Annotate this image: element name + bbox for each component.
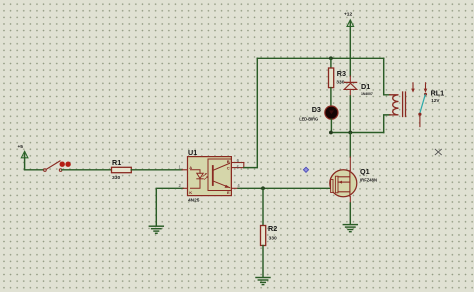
pivot dot [424,93,427,96]
junction D1 bottom [348,131,352,135]
U1 pin 4 stub [232,187,239,189]
wire R2 to ground [262,246,264,278]
svg-text:D1: D1 [361,82,370,91]
U1 internal LED [191,170,204,189]
junction R3 top [329,56,333,60]
bottom bus wire [331,132,384,134]
wire U1 pins to +12 rail riser [244,58,257,167]
U1 pin letters [189,159,230,195]
internal vertical [349,171,351,197]
MOSFET Q1 [330,167,377,197]
wire +5 to switch [25,169,44,171]
ground (Q1 source) [343,225,357,232]
svg-text:330: 330 [112,175,120,181]
power terminal +12 [344,12,354,59]
power terminal +5 [18,144,28,170]
wire U1 pin 2 to ground [156,188,183,225]
drain segment [338,176,350,178]
wire top bus to relay coil [384,58,390,95]
svg-text:A: A [189,165,192,170]
wire D3 to bottom bus [330,119,332,132]
wire +12 rail through D1 branch [349,58,351,76]
gate bar [331,180,333,193]
lever [420,95,425,113]
top bus wire [257,57,383,59]
channel bar [335,176,338,193]
wire R1 to U1 pin 1 [131,169,182,171]
ground (R2) [256,278,270,285]
LED D3 [299,105,338,121]
source segment [338,191,350,193]
resistor R2 [261,224,278,246]
Q1 source pin stub [349,197,351,204]
U1 light arrows [203,173,209,179]
contact pin right [425,83,427,89]
svg-text:2: 2 [179,183,182,188]
svg-text:R1: R1 [112,158,121,167]
svg-text:D3: D3 [312,105,321,114]
wire U1 pin4 to Q1 gate [238,187,331,189]
svg-text:R2: R2 [268,224,277,233]
svg-text:IRFZ48N: IRFZ48N [360,178,377,183]
U1 internal phototransistor [213,163,230,188]
wire junction to R2 [262,188,264,225]
svg-text:330: 330 [336,80,344,86]
contact pin left [412,83,414,89]
junction node (gate/R2) [261,186,265,190]
svg-text:C: C [227,165,230,170]
relay RL1 [390,83,444,127]
U1 pins 6,5 stubs joined [232,163,244,168]
common pin [418,113,421,116]
junction D3 bottom [329,131,333,135]
svg-text:E: E [227,190,230,195]
coil [390,95,399,115]
wire relay coil return to bottom bus [384,115,390,133]
svg-text:RL1: RL1 [431,88,445,97]
body arrow [338,181,350,183]
resistor R3 [329,68,347,88]
Q1 drain pin stub [349,157,351,171]
svg-text:K: K [189,190,192,195]
wire R3 to D3 [330,88,332,106]
svg-text:Q1: Q1 [360,167,370,176]
optocoupler U1 [188,148,232,203]
no-model marker x [435,149,441,155]
wire Q1 source to ground [349,203,351,224]
U1 pin 1 stub [182,169,188,171]
wire switch to R1 [62,169,112,171]
svg-text:+12: +12 [344,12,352,18]
diode D1 [344,76,373,96]
svg-text:U1: U1 [188,148,197,157]
core bars [402,92,404,117]
ground (U1 pin2) [149,226,163,233]
svg-text:4N25: 4N25 [188,197,200,203]
wire bottom bus to Q1 drain [349,133,351,158]
svg-text:+5: +5 [18,144,24,150]
svg-text:12V: 12V [431,98,440,103]
text origin marker (blue diamond) [303,167,308,172]
wire D1 to bottom bus [349,96,351,133]
wire top bus to R3 [330,58,332,68]
svg-text:1: 1 [179,164,182,169]
svg-text:1N4007: 1N4007 [361,92,373,96]
svg-text:LED-BIRG: LED-BIRG [299,116,318,121]
svg-text:4: 4 [237,183,240,188]
svg-text:330: 330 [269,236,277,242]
switch SW1 [44,161,71,172]
U1 pin 2 stub [183,187,188,189]
resistor R1 [112,158,132,181]
svg-text:B: B [227,159,230,164]
svg-text:R3: R3 [337,69,346,78]
